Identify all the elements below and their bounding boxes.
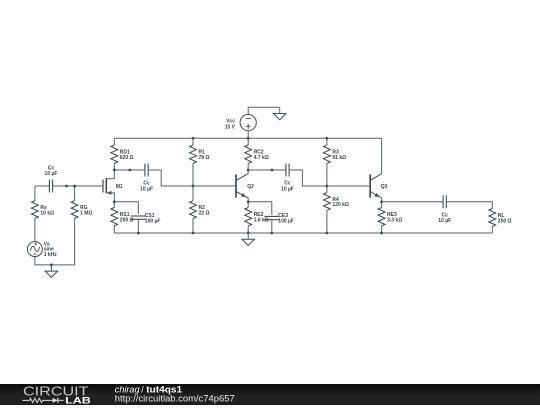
svg-text:Q3: Q3	[381, 184, 388, 190]
svg-text:15 V: 15 V	[225, 124, 236, 130]
svg-text:LAB: LAB	[65, 395, 91, 405]
svg-text:1 kHz: 1 kHz	[44, 252, 58, 258]
svg-text:Q2: Q2	[247, 184, 254, 190]
svg-text:91 kΩ: 91 kΩ	[332, 155, 346, 161]
svg-text:620 Ω: 620 Ω	[120, 155, 134, 161]
svg-text:120 kΩ: 120 kΩ	[332, 202, 349, 208]
svg-text:250 Ω: 250 Ω	[498, 218, 512, 224]
svg-text:10 µF: 10 µF	[140, 186, 153, 192]
svg-text:4.7 kΩ: 4.7 kΩ	[254, 155, 269, 161]
svg-text:http://circuitlab.com/c74p657: http://circuitlab.com/c74p657	[115, 393, 235, 403]
svg-text:200 Ω: 200 Ω	[120, 218, 134, 224]
svg-text:3.3 kΩ: 3.3 kΩ	[387, 218, 402, 224]
svg-text:10 µF: 10 µF	[438, 218, 451, 224]
svg-text:10 µF: 10 µF	[281, 186, 294, 192]
svg-text:100 µF: 100 µF	[145, 218, 161, 224]
svg-text:1.6 kΩ: 1.6 kΩ	[254, 218, 269, 224]
svg-text:78 Ω: 78 Ω	[199, 155, 210, 161]
svg-text:100 µF: 100 µF	[278, 218, 294, 224]
svg-text:10 kΩ: 10 kΩ	[40, 210, 54, 216]
svg-text:22 Ω: 22 Ω	[199, 210, 210, 216]
svg-text:M1: M1	[116, 184, 123, 190]
svg-text:10 µF: 10 µF	[45, 171, 58, 177]
svg-text:1 MΩ: 1 MΩ	[80, 210, 92, 216]
